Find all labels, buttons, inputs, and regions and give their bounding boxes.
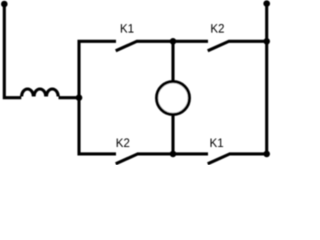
inductor L1 (relay coil, 3 arcs)	[22, 89, 59, 96]
label K2 top	[211, 24, 224, 33]
terminal dot top-left	[1, 1, 8, 8]
junction: top rail / motor branch	[170, 38, 177, 45]
terminal dot top-right	[263, 0, 270, 7]
motor M (circle)	[157, 82, 190, 115]
wire: bottom rail right segment	[229, 152, 267, 155]
junction: bottom rail / right vertical	[263, 151, 270, 158]
switch K2 bottom blade	[116, 154, 138, 164]
wire: coil to node A	[59, 96, 80, 99]
label K1 bottom	[211, 138, 224, 147]
wire: motor branch vertical	[171, 41, 174, 154]
wire: right vertical	[265, 4, 268, 154]
junction: top rail / right vertical	[263, 38, 270, 45]
label K2 bottom	[117, 138, 130, 147]
junction node A (coil / inner-left vertical)	[76, 94, 83, 101]
wire: top rail right segment	[229, 40, 267, 43]
label K1 top	[121, 24, 134, 33]
switch K2 top blade	[208, 41, 230, 51]
wire: left terminal vertical and horizontal lead to coil	[4, 4, 21, 98]
junction: bottom rail / motor branch	[170, 151, 177, 158]
switch K1 bottom blade	[208, 154, 230, 164]
switch K1 top blade	[116, 41, 138, 51]
wire: inner-left vertical joining top and bottom rails	[79, 41, 116, 154]
wire: bottom rail middle segment	[137, 152, 208, 155]
wire: top rail middle segment	[137, 40, 208, 43]
